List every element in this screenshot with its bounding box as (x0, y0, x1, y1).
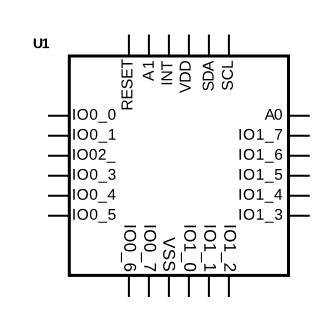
pin VSS wire (168, 276, 170, 297)
pin label SCL (222, 61, 233, 90)
pin label IO0_0 (73, 109, 115, 123)
pin IO1_6 wire (289, 155, 310, 157)
pin label IO0_1 (73, 129, 115, 143)
pin IO1_5 wire (289, 175, 310, 177)
pin label IO1_4 (239, 189, 282, 203)
pin IO0_4 wire (48, 195, 69, 197)
pin label IO0_6 (121, 226, 136, 272)
pin label A0 (265, 109, 282, 120)
pin label IO1_2 (221, 226, 236, 272)
pin label IO1_3 (239, 209, 282, 223)
pin label SDA (203, 61, 214, 91)
pin INT wire (168, 35, 170, 57)
pin A0 wire (289, 115, 310, 117)
pin IO1_3 wire (289, 215, 310, 217)
pin label IO0_5 (73, 209, 115, 223)
pin label VDD (180, 61, 191, 93)
pin IO0_3 wire (48, 175, 69, 177)
pin label IO1_0 (181, 226, 196, 272)
pin A1 wire (148, 35, 150, 57)
pin VDD wire (188, 35, 190, 57)
pin label IO1_5 (239, 169, 282, 183)
pin label IO0_7 (141, 226, 156, 272)
pin label IO0_4 (73, 189, 115, 203)
IC body U1 (69, 56, 288, 275)
pin IO1_0 wire (188, 276, 190, 297)
pin label IO02_ (73, 149, 115, 163)
pin IO1_2 wire (228, 276, 230, 297)
pin label IO1_7 (239, 129, 282, 143)
pin SDA wire (208, 35, 210, 57)
pin label RESET (121, 59, 132, 109)
pin RESET wire (128, 35, 130, 57)
pin IO0_5 wire (48, 215, 69, 217)
pin IO0_6 wire (128, 276, 130, 297)
reference designator U1 (34, 39, 49, 49)
pin IO0_1 wire (48, 135, 69, 137)
pin IO02_ wire (48, 155, 69, 157)
pin SCL wire (228, 35, 230, 57)
pin IO1_4 wire (289, 195, 310, 197)
pin label A1 (143, 61, 154, 81)
pin IO0_0 wire (48, 115, 69, 117)
pin label VSS (163, 237, 175, 271)
pin label IO1_1 (201, 226, 216, 272)
pin IO1_1 wire (208, 276, 210, 297)
pin IO1_7 wire (289, 135, 310, 137)
pin label IO1_6 (239, 149, 282, 163)
pin label INT (161, 61, 172, 84)
pin IO0_7 wire (148, 276, 150, 297)
pin label IO0_3 (73, 169, 115, 183)
